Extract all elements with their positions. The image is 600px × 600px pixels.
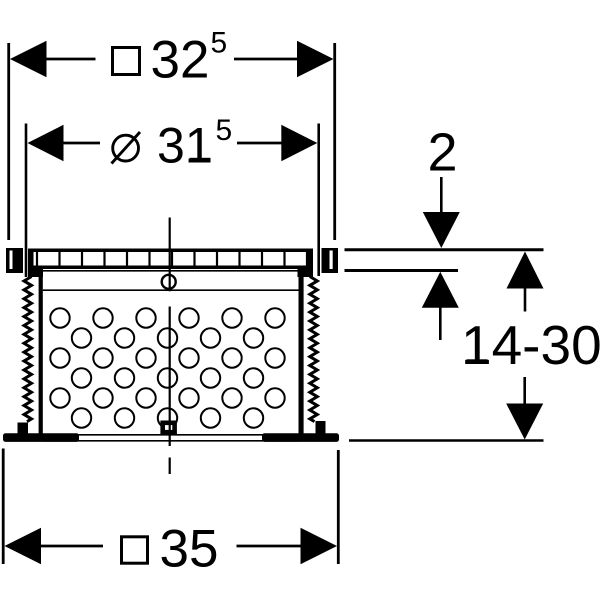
dimension 2 right line stub bbox=[237, 142, 283, 145]
plate bottom edge extension line to right bbox=[345, 269, 459, 272]
dimension 2 left arrow bbox=[28, 125, 64, 161]
dimension 1 square symbol bbox=[113, 48, 140, 75]
svg-text:35: 35 bbox=[160, 520, 219, 579]
dimension 2mm upper leader line bbox=[440, 177, 443, 213]
dimension 3 right line stub bbox=[237, 545, 303, 548]
body right wall bbox=[299, 269, 304, 436]
dimension 1 right extension line bbox=[333, 43, 336, 240]
dimension 1 right line stub bbox=[234, 58, 299, 61]
svg-text:14-30: 14-30 bbox=[461, 314, 600, 376]
body bottom edge bottom line bbox=[43, 440, 299, 442]
perforation row 1 bbox=[50, 308, 284, 327]
plate top edge extension line to right bbox=[345, 248, 544, 251]
left corner block under plate bbox=[28, 269, 43, 277]
left bellows zigzag bbox=[24, 277, 32, 422]
flange bottom extension line to right bbox=[349, 439, 544, 442]
right bellows foot bbox=[316, 421, 326, 434]
screw hole circle bbox=[162, 275, 176, 289]
dimension 14-30 lower leader line bbox=[523, 377, 526, 404]
dimension 3 left line stub bbox=[39, 545, 103, 548]
svg-text:32: 32 bbox=[151, 31, 210, 90]
dimension 2 diameter symbol circle bbox=[113, 135, 139, 161]
centerline bottom segment bbox=[169, 458, 171, 475]
left flange bar bbox=[3, 433, 79, 442]
centerline middle segment bbox=[169, 307, 171, 447]
right bellows zigzag bbox=[310, 277, 318, 422]
svg-text:5: 5 bbox=[216, 114, 233, 147]
dimension 3 right arrow bbox=[301, 528, 338, 564]
right corner block under plate bbox=[298, 269, 314, 277]
dimension 2 right extension line bbox=[317, 124, 320, 277]
body bottom edge top line bbox=[43, 434, 299, 436]
right flange bar bbox=[262, 433, 339, 442]
left frame bracket bbox=[6, 248, 23, 273]
dimension 2 diameter symbol slash bbox=[112, 132, 141, 164]
body top edge line bbox=[42, 270, 299, 272]
dimension 2mm up arrow bbox=[422, 272, 459, 308]
dimension 3 square symbol bbox=[122, 537, 148, 563]
dimension 14-30 down arrow bbox=[506, 404, 543, 440]
svg-text:2: 2 bbox=[428, 123, 458, 183]
dimension 14-30 up arrow bbox=[507, 252, 544, 289]
vertical centerline (chain line) bbox=[169, 218, 171, 292]
dimension 3 (bottom width 35) left extension line bbox=[2, 449, 5, 565]
dimension 2mm down arrow bbox=[423, 212, 460, 248]
dimension 3 left arrow bbox=[5, 528, 42, 564]
dimension 14-30 upper leader line bbox=[524, 287, 527, 312]
body inner horizontal line bbox=[43, 289, 299, 291]
dimension 3 right extension line bbox=[337, 450, 340, 564]
dimension 2 left line stub bbox=[61, 142, 100, 145]
dimension 1 left arrow bbox=[10, 41, 47, 77]
perforation row 5 bbox=[50, 388, 284, 407]
dimension 1 left line stub bbox=[44, 58, 96, 61]
bottom outlet square bbox=[163, 423, 175, 432]
dimension 1 (top width 32.5) left extension line bbox=[7, 43, 10, 240]
dimension 2 right arrow bbox=[281, 125, 317, 161]
grate plate outer rectangle bbox=[28, 249, 313, 270]
perforation row 2 bbox=[72, 328, 263, 347]
dimension 1 right arrow bbox=[297, 41, 334, 77]
svg-text:31: 31 bbox=[157, 118, 213, 174]
perforation row 3 bbox=[50, 348, 284, 367]
perforation row 6 bbox=[72, 408, 263, 427]
left bellows foot bbox=[18, 423, 29, 435]
grate plate inner white band bbox=[34, 252, 308, 266]
perforation row 4 bbox=[72, 368, 263, 387]
body left wall bbox=[39, 269, 43, 436]
dimension 2 (grate diameter 31.5) left extension line bbox=[25, 124, 28, 278]
right frame bracket bbox=[322, 248, 339, 273]
grate plate segment ticks bbox=[37, 252, 307, 266]
svg-text:5: 5 bbox=[211, 27, 228, 60]
dimension 2mm lower leader line bbox=[439, 306, 442, 340]
